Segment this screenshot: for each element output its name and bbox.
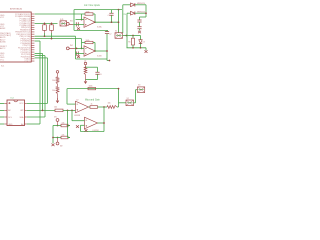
power drop to jack box: [122, 10, 124, 33]
input port circle ch2: [66, 47, 69, 50]
port circle P1: [56, 71, 59, 74]
wire X2 to X3 vertical: [135, 90, 137, 103]
channel1 frame top wire: [74, 9, 122, 11]
resistor R8: [55, 109, 63, 112]
channel2 frame left wire: [75, 36, 77, 59]
junction gnd link: [52, 137, 54, 139]
wire cap down to IC pin row: [51, 33, 53, 39]
wire IC1 bus tap 4: [35, 57, 48, 59]
bypass loop wire right lower: [97, 74, 99, 79]
ground link vertical: [52, 126, 54, 144]
vertical bus line 3: [44, 56, 46, 117]
feedback left vertical ch1: [81, 14, 83, 20]
LED D3: [140, 36, 142, 40]
lead R6 down: [85, 75, 87, 80]
wire minus input ch2: [75, 47, 84, 49]
wire plus in op4b: [81, 124, 85, 126]
junction M1: [57, 125, 59, 127]
wire output op4a: [89, 106, 91, 108]
output jack X2: [126, 100, 134, 106]
wire gnd row right cluster: [127, 47, 147, 49]
junction output ch1: [94, 21, 96, 23]
lead R10 to R11: [57, 84, 59, 87]
diode D1: [131, 3, 135, 7]
power step from frame: [122, 5, 124, 10]
vertical wire to feedback top: [118, 89, 120, 107]
wire IC2 pin6 row R8 row: [27, 109, 55, 111]
wire ch1 out down to jack: [118, 10, 120, 33]
IC2 left wires: [0, 102, 4, 104]
lead M1 down: [57, 121, 59, 125]
svg-text:A2: A2: [8, 109, 10, 112]
junction frame top corner: [118, 9, 120, 11]
svg-text:VCC: VCC: [0, 59, 5, 61]
lead port ch1: [69, 23, 73, 25]
resistor R6: [84, 67, 87, 74]
lead VREF to R6: [85, 65, 87, 67]
svg-text:10k: 10k: [62, 122, 65, 124]
ground op4b vminus: [85, 129, 88, 132]
pin1 mark: [9, 102, 11, 104]
wire IC2 pin8 row: [27, 123, 40, 125]
svg-text:VCC: VCC: [0, 17, 5, 19]
big microcontroller IC1: [0, 12, 31, 62]
svg-text:IN1: IN1: [70, 20, 73, 22]
vertical bus line 1: [39, 41, 41, 124]
junction cap ch1: [111, 21, 113, 23]
svg-text:VCC: VCC: [19, 103, 24, 105]
wire minus in op4b vertical: [71, 110, 73, 120]
vertical bus line 2: [42, 53, 44, 110]
bypass cap C6: [95, 72, 99, 74]
op-amp IC3B: [84, 46, 95, 56]
ground below R6: [84, 79, 87, 83]
wire R13 right: [68, 125, 70, 127]
svg-text:1/2: 1/2: [76, 99, 79, 101]
junction output op4b: [103, 122, 105, 124]
wire SJ1 to input port: [66, 22, 68, 24]
junction cap top: [51, 23, 53, 25]
junction minus op4b tap: [71, 110, 73, 112]
channel2 input cap: [76, 52, 78, 56]
wire IC2 pin7 row: [27, 116, 45, 118]
ground right cluster: [145, 48, 147, 50]
power rail to caps: [140, 16, 147, 18]
svg-text:A0: A0: [21, 123, 23, 126]
junction crystal top: [44, 23, 46, 25]
junction cluster mid: [132, 35, 134, 37]
feedback loop op4b bottom: [81, 131, 105, 133]
mic port circle M1: [56, 119, 59, 122]
DIP IC2 body: [7, 100, 25, 126]
svg-text:Mics and Gain: Mics and Gain: [85, 100, 100, 102]
svg-text:100k: 100k: [89, 85, 93, 87]
feedback right vertical ch2: [94, 43, 96, 52]
wire bias jog1: [68, 125, 71, 127]
wire bias jog2: [68, 137, 71, 139]
junction gnd row b: [140, 47, 142, 49]
svg-text:X3: X3: [138, 85, 140, 87]
svg-text:10k: 10k: [62, 134, 65, 136]
wire minus input ch1: [76, 19, 85, 21]
wire plus input ch2: [76, 53, 85, 55]
power rail vertical right: [145, 5, 147, 17]
wire from IC1 top pin to channel 1: [35, 13, 82, 15]
wire IC1 pin to SJ1: [35, 22, 58, 24]
svg-text:X1: X1: [115, 31, 117, 33]
svg-text:10k: 10k: [52, 80, 55, 82]
wire ch2 bottom jog: [106, 59, 108, 61]
lead port ch2: [69, 47, 75, 49]
ground below R11: [56, 98, 59, 102]
IC2 left pins: [4, 102, 7, 104]
svg-text:IN2: IN2: [70, 45, 73, 47]
power wire dc jack row: [127, 12, 131, 14]
resistor R14: [61, 136, 68, 139]
svg-text:M1: M1: [54, 117, 57, 119]
junction connector ch2: [76, 48, 78, 50]
ground op-amp ch2: [77, 55, 80, 58]
IC1 pins right side: [31, 13, 34, 15]
wire M2 junction: [53, 137, 61, 139]
wire X1 to rail: [123, 35, 127, 37]
feedback right vertical ch1: [94, 14, 96, 22]
capacitor C7: [50, 25, 54, 31]
resistor R11: [56, 87, 59, 94]
mic port circle M2: [56, 142, 59, 145]
wire IC1 bus tap 2: [35, 52, 43, 54]
capacitor C8: [137, 20, 141, 22]
wire M1 junction left: [53, 125, 61, 127]
IC2 right pins: [25, 102, 27, 104]
wire R8 to op4a: [63, 109, 76, 111]
svg-text:GND: GND: [8, 124, 13, 126]
wire ch2 vertical: [106, 34, 108, 59]
bypass loop wire bottom: [86, 79, 98, 81]
resistor R5 vertical: [132, 36, 134, 39]
svg-text:C6: C6: [99, 74, 101, 76]
op-amp IC3A: [84, 17, 95, 27]
channel1 input cap: [76, 22, 78, 26]
junction M2: [57, 137, 59, 139]
junction bias tap: [67, 110, 69, 112]
junction feedback right: [118, 88, 120, 90]
feedback loop op4b right vertical: [103, 107, 105, 132]
resistor R9 output: [90, 106, 98, 109]
svg-text:R5: R5: [128, 42, 130, 44]
svg-text:C1: C1: [108, 15, 110, 17]
output cap C2 ch2: [106, 30, 108, 31]
output jack X3: [138, 87, 145, 93]
wire plus input ch1: [73, 23, 84, 25]
junction divider top: [85, 66, 87, 68]
capacitor C9: [137, 27, 141, 29]
svg-text:AVCC: AVCC: [0, 47, 6, 50]
wire feedback down to minus op4a: [66, 89, 68, 105]
wire output ch2: [95, 50, 107, 52]
channel1 frame bottom wire: [74, 29, 108, 31]
svg-text:100k: 100k: [86, 40, 90, 42]
wire R14 right: [68, 137, 70, 139]
svg-text:LM358: LM358: [74, 115, 81, 117]
diode D2: [131, 11, 135, 15]
junction gnd row a: [132, 47, 134, 49]
resistor R13: [61, 124, 68, 127]
svg-text:100k: 100k: [86, 12, 90, 14]
solder jumper SJ1: [60, 21, 67, 26]
resistor R10: [56, 77, 59, 84]
crystal Q1: [43, 25, 47, 31]
svg-text:10k: 10k: [54, 107, 57, 109]
wire IC row to channel2 feedback: [52, 38, 82, 40]
junction bias R13: [67, 125, 69, 127]
channel2 frame bottom wire: [76, 58, 108, 60]
wire IC row to channel2 frame: [45, 35, 76, 37]
channel1 frame left wire: [73, 10, 75, 31]
input port circle ch1: [66, 23, 69, 26]
power wire battery row: [123, 4, 131, 6]
output cap C1 ch1: [109, 13, 113, 15]
ground op-amp ch1: [77, 27, 80, 30]
ground at plus op4b: [76, 125, 79, 128]
junction bus2 end: [42, 110, 44, 112]
bypass loop wire top: [86, 66, 98, 68]
wire output op4b: [98, 122, 105, 124]
wire minus in op4b: [72, 120, 85, 122]
svg-text:ATMEGA8-AI: ATMEGA8-AI: [10, 8, 22, 11]
port circle VREF: [84, 62, 87, 65]
feedback resistor R2: [85, 41, 93, 43]
output jack X2 left stub: [119, 102, 127, 104]
svg-text:10k: 10k: [52, 90, 55, 92]
junction ch2 out: [106, 50, 108, 52]
op-amp IC4A: [76, 101, 89, 113]
svg-text:10k: 10k: [108, 103, 111, 105]
svg-text:SCL: SCL: [8, 117, 12, 119]
lead R11 to ground: [57, 94, 59, 100]
vertical bus line 4: [47, 58, 49, 104]
ground mic ports: [52, 144, 55, 147]
wire crystal down to IC pin row: [44, 33, 46, 36]
junction end ch2: [109, 60, 111, 62]
junction power rail: [145, 12, 147, 14]
junction X1 rail: [126, 35, 128, 37]
wire X2 to X3 horizontal: [134, 102, 136, 104]
wire IC1 bus tap 1: [35, 40, 40, 42]
output jack X1: [115, 33, 123, 39]
wire minus in op4a: [67, 103, 76, 105]
svg-text:XTAL1: XTAL1: [24, 60, 31, 63]
svg-text:D3: D3: [143, 42, 145, 44]
svg-text:1k: 1k: [91, 104, 93, 106]
lead M2 up: [57, 138, 59, 143]
bias vertical wire: [67, 110, 69, 137]
svg-text:AGND: AGND: [0, 41, 6, 44]
feedback resistor R1: [85, 13, 93, 15]
junction minus input ch2: [81, 48, 83, 50]
svg-text:mic / line inputs: mic / line inputs: [84, 4, 101, 7]
wire IC2 pin5 row: [27, 102, 48, 104]
junction output ch2: [94, 50, 96, 52]
ground below caps: [139, 29, 141, 31]
feedback top wire bottom section: [67, 88, 119, 90]
svg-text:M2: M2: [60, 146, 63, 148]
svg-text:C2: C2: [109, 34, 111, 36]
bypass loop wire right upper: [97, 67, 99, 72]
wire zigzag to vertical: [117, 106, 119, 108]
lead P1 to R10: [57, 73, 59, 77]
junction output meets drop: [118, 21, 120, 23]
wire output ch1: [95, 21, 119, 23]
feedback left vertical ch2: [81, 39, 83, 49]
op-amp IC4B: [85, 117, 98, 129]
feedback loop op4b left vertical: [80, 125, 82, 131]
svg-text:AREF: AREF: [0, 27, 6, 30]
junction mix node: [103, 106, 105, 108]
svg-text:IC3B: IC3B: [97, 55, 102, 57]
power rail vertical 9V: [126, 13, 128, 48]
gain resistor R12 zigzag: [107, 106, 117, 109]
resistor R7 top: [88, 87, 96, 89]
svg-text:A1: A1: [8, 102, 10, 105]
svg-text:IC3A: IC3A: [97, 26, 102, 29]
wire rail to cluster: [127, 35, 141, 37]
svg-text:X2: X2: [127, 98, 129, 100]
junction minus input ch1: [81, 19, 83, 21]
wire IC1 bus tap 3: [35, 55, 45, 57]
